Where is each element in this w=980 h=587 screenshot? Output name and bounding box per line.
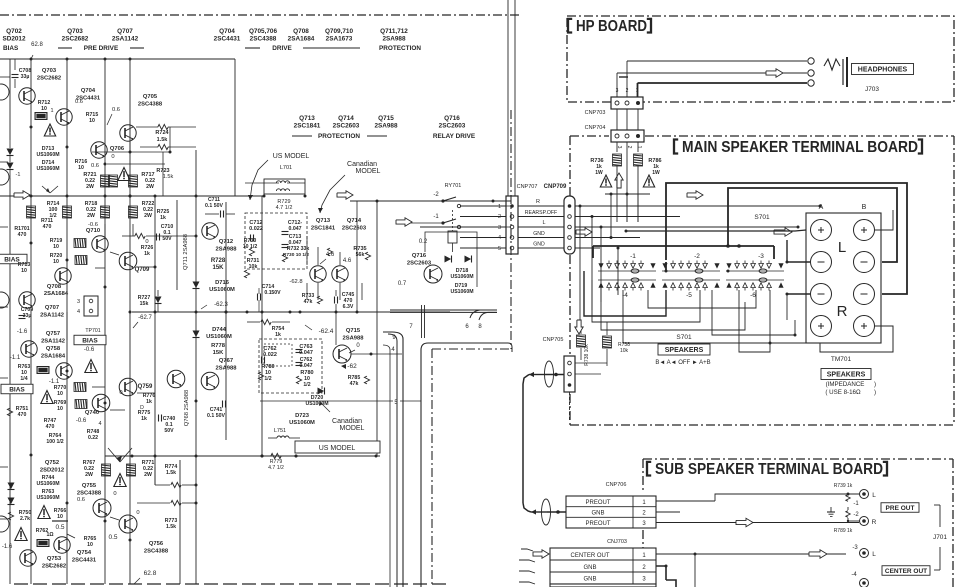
svg-text:62.8: 62.8 [144, 570, 157, 577]
wire q715 out [351, 353, 402, 356]
svg-text:50V: 50V [162, 236, 172, 242]
svg-text:0: 0 [119, 390, 122, 396]
diode d744 [193, 331, 200, 338]
svg-text:-2: -2 [433, 192, 439, 198]
label Q767 [216, 358, 238, 372]
svg-text:Q707: Q707 [45, 305, 59, 311]
label R715 [86, 112, 99, 124]
label R727 [133, 295, 152, 328]
vert x397 [388, 334, 397, 587]
resistor R718 [85, 201, 110, 219]
resistor R719 [50, 238, 86, 250]
svg-text:US MODEL: US MODEL [273, 153, 310, 160]
label Q768 vert [184, 390, 190, 426]
warning triangle d1c [114, 474, 126, 487]
label R729 [276, 199, 293, 211]
twisted pair CNP705 [545, 361, 554, 387]
svg-text:Q713: Q713 [316, 218, 331, 224]
label Q716b [407, 253, 432, 267]
svg-text:1: 1 [48, 563, 51, 569]
label D743 [36, 489, 59, 501]
left edge half transistors [0, 84, 9, 532]
svg-text:470: 470 [46, 424, 55, 430]
svg-text:RY701: RY701 [445, 183, 462, 189]
svg-text:L701: L701 [280, 165, 292, 171]
svg-text:Q715: Q715 [378, 115, 394, 122]
J701 bracket [933, 505, 947, 570]
label CNP703 [585, 110, 606, 116]
svg-text:1: 1 [636, 88, 639, 94]
capacitor C741 [207, 401, 225, 420]
left bus junction dots [30, 126, 228, 542]
svg-text:US1060M: US1060M [450, 289, 473, 295]
svg-text:US1060M: US1060M [36, 481, 59, 487]
label R731 [244, 258, 259, 278]
label switch positions [655, 360, 710, 366]
svg-text:10: 10 [41, 106, 47, 112]
wires TM701 left [786, 240, 811, 320]
svg-text:R: R [837, 303, 848, 320]
label R747 [44, 418, 57, 430]
svg-text:US1060M: US1060M [289, 420, 315, 426]
svg-text:2SA1673: 2SA1673 [326, 36, 353, 43]
transistor Q704 [56, 88, 101, 125]
resistor zig d1b [137, 500, 198, 505]
resistor R722 [129, 201, 155, 219]
resistor R714a [27, 201, 72, 219]
wires R738 [575, 322, 607, 374]
resistor zigv r735 [327, 248, 370, 260]
svg-text:-5: -5 [686, 292, 692, 299]
wires preout terminals [847, 493, 861, 523]
svg-text:2SA1684: 2SA1684 [41, 354, 66, 360]
label R785 [348, 375, 370, 387]
left block right edge [422, 305, 425, 338]
svg-text:(IMPEDANCE: (IMPEDANCE [826, 381, 865, 388]
wires top to CNP707 [508, 0, 515, 196]
svg-text:2W: 2W [87, 213, 95, 219]
label D718 [450, 268, 473, 280]
svg-text:10: 10 [78, 165, 84, 171]
svg-text:-3: -3 [758, 253, 764, 260]
svg-text:Q716: Q716 [444, 115, 460, 122]
svg-text:3: 3 [77, 299, 80, 305]
svg-text:HP BOARD: HP BOARD [576, 18, 647, 35]
label L751 [268, 428, 300, 438]
svg-text:BIAS: BIAS [82, 337, 98, 344]
label L big [838, 239, 846, 256]
label -4 [851, 572, 857, 578]
S701 contact group 3 row2 [726, 278, 783, 291]
svg-text:2SC2682: 2SC2682 [42, 564, 66, 570]
label CNP704 [585, 125, 606, 131]
svg-text:GND: GND [533, 242, 545, 248]
terminal A+ L [811, 220, 832, 241]
twisted pair CNP706 [542, 499, 551, 525]
svg-text:BIAS: BIAS [9, 386, 25, 393]
wire preout row2 stub [656, 511, 680, 513]
svg-text:TP701: TP701 [85, 328, 100, 334]
svg-text:TM701: TM701 [831, 356, 852, 363]
svg-text:CNP706: CNP706 [606, 482, 627, 488]
wire Q709 links [95, 239, 155, 268]
connector CNP707 [498, 196, 518, 254]
svg-text:1.5k: 1.5k [166, 524, 176, 530]
terminal A+ R [811, 316, 832, 337]
resistor R712 [35, 100, 54, 120]
label R774 [165, 464, 178, 476]
svg-text:Q756: Q756 [149, 541, 164, 547]
svg-text:4.6: 4.6 [343, 258, 352, 264]
resistor R754 [247, 319, 290, 338]
label -0.6 c1c [76, 418, 87, 424]
svg-text:Q754: Q754 [77, 550, 92, 556]
warning triangle d1a [38, 506, 50, 519]
label -1 preout [853, 501, 859, 507]
label 62.8 bottom [134, 570, 157, 584]
svg-text:2W: 2W [144, 472, 152, 478]
resistor R723 zig [140, 144, 196, 180]
label R764 [46, 433, 63, 445]
diode d758 [155, 290, 162, 312]
label J703 [865, 86, 879, 93]
ground preout [827, 507, 835, 516]
wires relay right [461, 206, 511, 227]
svg-text:0.2: 0.2 [419, 239, 428, 245]
wires c1 [67, 312, 155, 427]
svg-text:0.022: 0.022 [263, 352, 277, 358]
svg-text:R778: R778 [211, 343, 226, 349]
label -1.1 c1 [10, 355, 21, 361]
terminal B+ L [854, 220, 875, 241]
transistor Q740 [85, 394, 110, 416]
svg-text:Q759: Q759 [138, 384, 153, 390]
svg-text:US1060M: US1060M [36, 166, 59, 172]
svg-text:-1.6: -1.6 [17, 329, 28, 335]
bus top y59 [0, 58, 235, 61]
svg-text:0: 0 [113, 491, 116, 497]
resistor R766 [52, 508, 68, 521]
label PROTECTION mid [292, 133, 387, 140]
resistor R786 [634, 154, 662, 176]
label -62.3 [201, 302, 228, 309]
svg-text:L: L [872, 551, 876, 558]
svg-text:1.5k: 1.5k [163, 174, 174, 180]
svg-text:15K: 15K [213, 350, 224, 356]
svg-text:0.5: 0.5 [108, 534, 117, 541]
dashed box US filter 1 [245, 213, 307, 269]
svg-text:2SC2682: 2SC2682 [62, 36, 89, 43]
label TM701 [831, 356, 852, 363]
label R780a [258, 364, 274, 382]
thick bus mid [593, 244, 774, 259]
label R775 [138, 410, 151, 422]
wire row R [460, 199, 564, 206]
vert x235 [234, 59, 236, 196]
S701 contact group 2 labels [686, 253, 700, 299]
connector TP pins [77, 296, 98, 316]
svg-text:CNP709: CNP709 [544, 184, 567, 190]
label S701 bottom [676, 334, 692, 341]
svg-text:1.5k: 1.5k [157, 137, 169, 143]
transistor Q706 [91, 142, 125, 160]
svg-text:0: 0 [111, 154, 114, 160]
rounded bus 9 4 [383, 345, 390, 587]
svg-text:2SC1841: 2SC1841 [311, 226, 336, 232]
label R739 [834, 483, 853, 489]
warning triangle near R786 [643, 175, 654, 187]
label Q707 top [112, 28, 139, 43]
svg-text:L: L [838, 239, 846, 256]
svg-text:HEADPHONES: HEADPHONES [858, 67, 908, 74]
svg-text:1: 1 [636, 146, 642, 149]
label R716 [75, 159, 99, 171]
S701 contact group 1 labels [622, 253, 636, 299]
svg-text:-2: -2 [694, 253, 700, 260]
vert x155 [154, 196, 156, 485]
svg-text:1: 1 [50, 108, 53, 114]
svg-text:1/2: 1/2 [264, 376, 271, 382]
relay coil [448, 210, 457, 252]
svg-text:R728: R728 [211, 258, 226, 264]
wire row1 links [92, 127, 172, 196]
svg-text:Q711 2SA988: Q711 2SA988 [183, 234, 189, 270]
svg-text:-1: -1 [630, 253, 636, 260]
svg-text:2W: 2W [144, 213, 152, 219]
svg-text:2SC2603: 2SC2603 [342, 226, 367, 232]
svg-text:2SA988: 2SA988 [374, 123, 398, 130]
svg-text:US1060M: US1060M [450, 274, 473, 280]
thick bus inner [728, 188, 897, 262]
svg-text:2SC2682: 2SC2682 [37, 76, 61, 82]
page top border dash-dot [0, 14, 520, 16]
label RY701 [445, 183, 462, 189]
capacitor C740 [159, 415, 176, 435]
svg-text:0: 0 [145, 239, 148, 245]
resistor R767 [83, 460, 136, 478]
svg-text:PROTECTION: PROTECTION [379, 45, 421, 52]
arrows crossing1 [42, 186, 58, 193]
label Canadian c2 [319, 402, 365, 432]
label CNJ703 [607, 539, 627, 545]
svg-text:-1: -1 [853, 501, 859, 507]
label 0.7 [398, 281, 407, 287]
svg-text:2.7k: 2.7k [20, 516, 30, 522]
label CNP706 [606, 482, 627, 488]
svg-text:GNB: GNB [583, 577, 596, 583]
label D744 [206, 327, 232, 340]
svg-text:Q752: Q752 [45, 460, 59, 466]
label Q757 [41, 331, 65, 345]
svg-text:47k: 47k [304, 299, 313, 305]
capacitor C762a [262, 346, 277, 364]
transistor Q755t [93, 491, 117, 517]
svg-text:Q705: Q705 [143, 94, 158, 100]
sub speaker board title [647, 461, 887, 478]
wire row GND5 [460, 242, 564, 249]
HP board border [567, 16, 954, 102]
resistor R789 zig [846, 511, 850, 518]
label Q711 712 top [380, 28, 408, 43]
svg-text:L: L [542, 220, 545, 226]
svg-text:MAIN SPEAKER TERMINAL BOARD: MAIN SPEAKER TERMINAL BOARD [682, 139, 918, 156]
wire pin5 row [260, 400, 421, 402]
transistor Q715 [333, 343, 360, 363]
thick bus A plus [625, 230, 807, 233]
svg-text:2SC2603: 2SC2603 [407, 261, 432, 267]
resistor R762 [36, 528, 54, 547]
wire row GND4 [460, 231, 564, 238]
svg-text:CNJ703: CNJ703 [607, 539, 627, 545]
svg-text:L751: L751 [274, 428, 286, 434]
svg-text:Q709: Q709 [135, 267, 150, 273]
signal arrow HP [766, 69, 783, 77]
resistor R717 [129, 172, 156, 190]
connector CNP709 [564, 196, 575, 254]
svg-text:-1.1: -1.1 [10, 355, 21, 361]
svg-text:47k: 47k [350, 381, 359, 387]
diode D720 [305, 388, 328, 408]
svg-text:CENTER OUT: CENTER OUT [885, 568, 927, 575]
connector CNP705 [564, 356, 575, 392]
label PROTECTION section [379, 45, 421, 52]
wires CNP704 down [617, 142, 638, 222]
wire HP sleeve [638, 83, 808, 98]
capacitor C714 [258, 284, 282, 312]
S701 contact group 1 row2 [598, 278, 655, 291]
transistor Q716 [424, 265, 442, 283]
rounded bus 6 8 [470, 310, 497, 320]
svg-text:Q703: Q703 [67, 28, 83, 35]
arrow up CNP704 [615, 173, 623, 188]
svg-text:PRE DRIVE: PRE DRIVE [84, 45, 119, 52]
svg-text:-62.3: -62.3 [214, 302, 228, 308]
svg-text:Q709,710: Q709,710 [325, 28, 354, 35]
HP board title [568, 18, 651, 35]
svg-text:GNB: GNB [583, 565, 596, 571]
svg-text:DRIVE: DRIVE [272, 45, 292, 52]
svg-text:0.1 50V: 0.1 50V [205, 203, 223, 209]
svg-text:Q755: Q755 [82, 483, 97, 489]
svg-text:SPEAKERS: SPEAKERS [827, 372, 866, 379]
label Q758 [41, 346, 66, 360]
label R711 [41, 218, 53, 230]
svg-text:-0.6: -0.6 [84, 347, 95, 353]
warning triangle w1 [44, 124, 55, 136]
svg-text:2SC4431: 2SC4431 [72, 558, 97, 564]
svg-text:A: A [819, 204, 824, 211]
wire CNP704 junction [605, 193, 650, 223]
svg-text:D716: D716 [215, 280, 230, 286]
resistor zig r726 [135, 233, 154, 257]
label R773 [165, 518, 178, 530]
bus y201 right [350, 200, 511, 203]
svg-text:US1060M: US1060M [206, 334, 232, 340]
capacitor C709 [19, 307, 34, 319]
label R735 [353, 246, 366, 258]
label R765 [84, 536, 97, 548]
svg-text:R730 10 1/2: R730 10 1/2 [283, 252, 309, 258]
svg-text:): ) [874, 389, 876, 396]
transistor Q754t [54, 537, 97, 564]
svg-text:2SC4431: 2SC4431 [214, 36, 241, 43]
label Canadian MODEL b2 [318, 161, 381, 213]
wire CNP705 to CNP706 [523, 503, 531, 512]
svg-text:0.22: 0.22 [88, 435, 98, 441]
svg-text:Q711,712: Q711,712 [380, 28, 408, 35]
svg-text:SUB SPEAKER TERMINAL BOARD: SUB SPEAKER TERMINAL BOARD [655, 461, 883, 478]
capacitor C708 [12, 59, 32, 88]
label TP701 [85, 328, 100, 334]
transistor c1c [167, 370, 185, 388]
svg-text:MODEL: MODEL [340, 425, 365, 432]
svg-text:CNP707: CNP707 [517, 184, 538, 190]
label B [862, 204, 867, 211]
svg-text:-62.4: -62.4 [319, 328, 334, 335]
svg-text:2SC2603: 2SC2603 [439, 123, 466, 130]
svg-text:4: 4 [98, 421, 101, 427]
terminal B+ R [854, 316, 875, 337]
PRE OUT label box [881, 503, 919, 513]
label R776 [143, 393, 156, 405]
label Q709 710 top [325, 28, 354, 43]
pin 6 [465, 324, 469, 330]
transistor Q712 [202, 223, 237, 253]
svg-text:Q757: Q757 [46, 331, 60, 337]
svg-text:33µ: 33µ [23, 313, 32, 319]
transistor c1b [56, 363, 72, 379]
switch -1 [407, 214, 461, 229]
label CNP709 [544, 184, 567, 190]
svg-text:R732 33k: R732 33k [287, 246, 310, 252]
label R733 [302, 293, 323, 305]
main speaker board border [570, 136, 954, 425]
svg-text:1k: 1k [144, 251, 150, 257]
label S701 top [754, 214, 770, 221]
label R big [837, 303, 848, 320]
dashed box US filter 2 [259, 339, 322, 393]
svg-text:2SA988: 2SA988 [343, 336, 365, 342]
svg-text:0.5: 0.5 [55, 524, 64, 531]
arrow CNP705 [529, 372, 564, 377]
vert x421 [421, 343, 512, 587]
svg-text:0.6: 0.6 [91, 163, 99, 169]
CENTER OUT label box [882, 566, 930, 576]
svg-text:4.7 1/2: 4.7 1/2 [268, 465, 284, 471]
label R778 [211, 343, 226, 356]
svg-text:2SC1841: 2SC1841 [294, 123, 321, 130]
svg-text:10: 10 [89, 118, 95, 124]
resistor R724 zig [136, 124, 196, 129]
BIAS box left [0, 254, 27, 264]
warning triangle c1a [85, 360, 97, 373]
svg-text:2SC2603: 2SC2603 [333, 123, 360, 130]
transistor Q714 [332, 218, 367, 282]
svg-text:2SC4388: 2SC4388 [250, 36, 277, 43]
svg-text:-62.8: -62.8 [289, 279, 302, 285]
label R724 [155, 130, 169, 143]
diode D716 [193, 280, 236, 293]
capacitor C711 [205, 197, 235, 218]
S701 contact group 2 row1 [662, 261, 719, 274]
thick bus outer [666, 183, 907, 294]
svg-text:D744: D744 [212, 327, 227, 333]
US MODEL box c2 [295, 441, 380, 453]
label Q713 mid [294, 115, 321, 130]
transistor Q759 [119, 378, 153, 396]
svg-text:4.7 1/2: 4.7 1/2 [276, 205, 293, 211]
terminal B- R [854, 284, 875, 305]
